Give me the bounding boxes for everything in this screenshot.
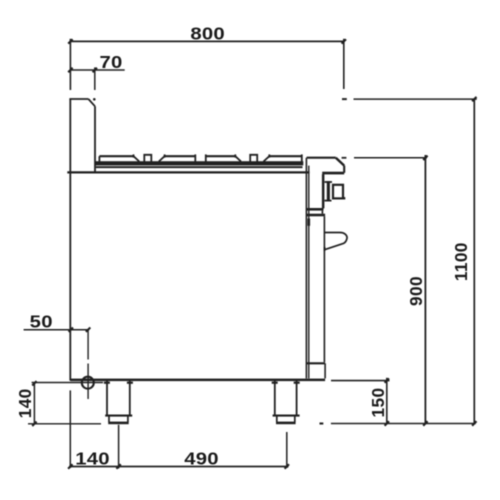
grate 4 left claw tick <box>268 154 270 157</box>
dimension 70 extension dot <box>93 98 96 101</box>
svg-text:800: 800 <box>190 24 225 43</box>
svg-text:150: 150 <box>368 388 388 418</box>
dimension 1100 dim line <box>473 99 475 423</box>
oven door front edge <box>323 216 325 362</box>
cooktop lower lip line <box>96 166 303 168</box>
body back edge <box>69 99 71 381</box>
dimension 140 left top extension line / gas inlet crosshair <box>32 382 103 384</box>
door bottom right edge <box>324 363 326 378</box>
grate 2 left claw tick <box>164 154 166 157</box>
bottom dimension right tick <box>285 464 289 468</box>
grate 4 right edge <box>301 154 303 161</box>
left leg top flange right <box>127 382 133 384</box>
right foot base <box>276 422 296 425</box>
dimension 800 right extension line <box>343 39 345 89</box>
dimension 900 dim line <box>424 155 426 424</box>
grate 4 left slant <box>264 156 270 161</box>
dimension 1100 top tick <box>472 97 476 101</box>
burner support 2 <box>249 155 258 162</box>
body bottom <box>70 379 325 382</box>
grate 3 right claw tick <box>234 154 236 157</box>
dimension 1100 top extension line <box>354 98 477 100</box>
dimension 150 dim line <box>386 378 388 424</box>
dimension 50 left tick <box>69 328 73 332</box>
bottom dimension left extension line <box>69 390 71 468</box>
burner support 1 <box>143 155 152 162</box>
dimension 900 top tick <box>423 156 427 160</box>
dimension 150 top extension line <box>331 380 390 382</box>
dimension 150 bottom tick <box>385 421 389 425</box>
backsplash front edge <box>94 106 96 173</box>
bottom dimension left tick <box>68 464 72 468</box>
left foot right side <box>127 417 129 423</box>
bottom dimension middle extension line <box>118 425 120 469</box>
svg-text:490: 490 <box>184 449 219 468</box>
dimension 800 right tick <box>342 39 346 43</box>
grate 2 left slant <box>159 156 165 161</box>
grate 3 top <box>206 155 236 157</box>
knob base bottom cap <box>325 200 332 202</box>
dimension 140 left top tick <box>32 381 36 385</box>
backsplash top chamfer <box>88 99 95 106</box>
knob face plate <box>333 185 343 199</box>
grate 3 right slant <box>235 156 241 161</box>
right foot left side <box>276 417 278 423</box>
door hinge mark <box>307 219 310 226</box>
dimension 140 left dim line <box>33 383 35 424</box>
door bottom edge <box>306 362 325 364</box>
control panel top edge <box>307 157 336 159</box>
dimension 800 dim line <box>70 40 343 42</box>
right leg collar <box>273 415 300 417</box>
door handle <box>325 233 348 250</box>
grate 1 right claw tick <box>133 154 135 157</box>
dimension 900 top extension line <box>354 157 427 159</box>
grate 4 top <box>269 155 302 157</box>
svg-text:140: 140 <box>15 388 35 418</box>
dimension 1100 top extension dash <box>342 98 347 100</box>
grate 2 right edge <box>194 154 196 161</box>
dimension 1100 bottom tick <box>472 421 476 425</box>
dimension 800 left tick <box>68 39 72 43</box>
right leg top flange right <box>294 382 300 384</box>
cooktop rim band <box>95 161 303 165</box>
dimension 140 left bottom tick <box>32 422 36 426</box>
right leg top flange left <box>272 382 278 384</box>
left foot base <box>108 422 129 425</box>
svg-text:70: 70 <box>99 52 122 71</box>
grate 2 top <box>165 155 196 157</box>
dimension 50 extension line upper <box>87 330 89 360</box>
control panel inner vertical <box>322 174 325 208</box>
dimension 150 top tick <box>385 378 389 382</box>
svg-text:900: 900 <box>406 276 426 306</box>
body top line <box>67 171 309 173</box>
dimension 800 left extension line <box>69 39 71 90</box>
grate 1 right slant <box>134 156 140 161</box>
backsplash top edge <box>69 98 88 100</box>
right foot right side <box>294 417 296 423</box>
panel rail connector <box>321 211 323 214</box>
control panel right edge <box>343 166 345 173</box>
dimension 50 extension line lower <box>87 364 89 400</box>
door handle mount <box>324 247 326 251</box>
ground reference dash <box>320 422 324 424</box>
dimension 50 dim line <box>24 329 90 331</box>
control panel bottom rail upper <box>307 208 324 211</box>
left leg left side <box>106 381 108 415</box>
svg-text:50: 50 <box>30 312 53 331</box>
grate 3 left edge <box>205 154 207 161</box>
knob base top cap <box>325 181 332 183</box>
svg-text:140: 140 <box>75 449 110 468</box>
gas inlet circle <box>82 377 94 389</box>
right leg right side <box>296 381 298 415</box>
body front inner edge <box>308 166 310 379</box>
left leg top flange left <box>104 382 110 384</box>
ground reference line <box>331 423 476 425</box>
control panel bottom rail lower <box>307 214 326 217</box>
dimension 900 top extension dash <box>342 157 347 159</box>
bottom dimension right extension line <box>286 432 288 468</box>
dimension 900 bottom tick <box>423 421 427 425</box>
dimension 70 left tick <box>68 68 72 72</box>
left leg right side <box>129 381 131 415</box>
control panel underside <box>322 172 344 175</box>
left foot left side <box>108 417 110 423</box>
bottom dimension dim line <box>69 466 288 468</box>
right leg left side <box>274 381 276 415</box>
body front outer edge <box>305 158 307 379</box>
svg-text:1100: 1100 <box>451 242 471 281</box>
control panel chamfer <box>336 158 344 166</box>
dimension 140 left bottom extension line <box>28 423 101 425</box>
dimension 70 right tick <box>93 68 97 72</box>
dimension 50 right tick <box>86 328 90 332</box>
grate 1 left edge <box>98 156 100 161</box>
dimension 70 dim line <box>70 69 124 71</box>
bottom dimension middle tick <box>116 464 120 468</box>
left leg collar <box>105 415 132 417</box>
dimension 70 extension line <box>94 67 96 90</box>
knob face corner nub <box>344 197 346 199</box>
grate 1 top <box>99 155 133 157</box>
knob base plate <box>327 181 330 201</box>
